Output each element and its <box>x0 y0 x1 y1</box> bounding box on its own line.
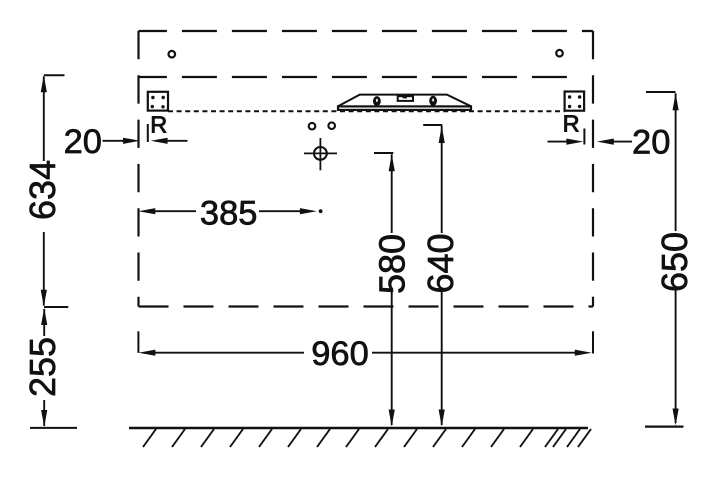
floor hatching <box>143 429 591 447</box>
tick between 634 and 255 <box>44 306 68 308</box>
wall rail dotted line <box>168 110 565 112</box>
dimension 20 left <box>64 123 188 161</box>
dimension 634 <box>22 75 64 306</box>
cabinet outline left edge <box>137 31 139 307</box>
svg-text:960: 960 <box>311 335 369 373</box>
dimension 385 <box>138 194 322 232</box>
svg-text:640: 640 <box>420 233 461 293</box>
rail slot right <box>429 96 437 106</box>
top hole left <box>169 51 176 58</box>
svg-text:650: 650 <box>654 232 695 292</box>
cabinet outline right edge <box>592 31 594 307</box>
top hole right <box>556 50 563 57</box>
svg-text:20: 20 <box>632 124 670 162</box>
floor line <box>129 427 588 429</box>
dimension 20 right <box>548 124 671 162</box>
right mounting bracket <box>565 92 585 111</box>
svg-text:385: 385 <box>200 194 258 232</box>
floor segment right under 650 <box>645 426 684 428</box>
svg-text:634: 634 <box>22 160 63 220</box>
cabinet outline top edge <box>139 30 594 32</box>
left mounting bracket <box>148 92 168 111</box>
svg-text:20: 20 <box>64 123 102 161</box>
svg-text:R: R <box>563 111 580 137</box>
svg-text:255: 255 <box>22 337 63 397</box>
small hole pair right <box>328 122 335 129</box>
dimension 640 <box>420 125 461 427</box>
svg-text:R: R <box>150 112 167 138</box>
rail slot left <box>373 96 381 106</box>
rail center notch <box>398 95 413 101</box>
fixing hole crosshair <box>304 138 337 170</box>
dimension 580 <box>372 153 413 427</box>
dimension 650 <box>646 92 695 426</box>
dimension 960 <box>138 331 593 373</box>
cabinet top divider dashed line <box>139 76 577 78</box>
svg-text:580: 580 <box>372 234 413 294</box>
small hole pair left <box>309 123 316 130</box>
wall rail body <box>338 95 471 110</box>
dimension 255 <box>22 308 77 428</box>
cabinet outline bottom edge <box>139 305 594 307</box>
